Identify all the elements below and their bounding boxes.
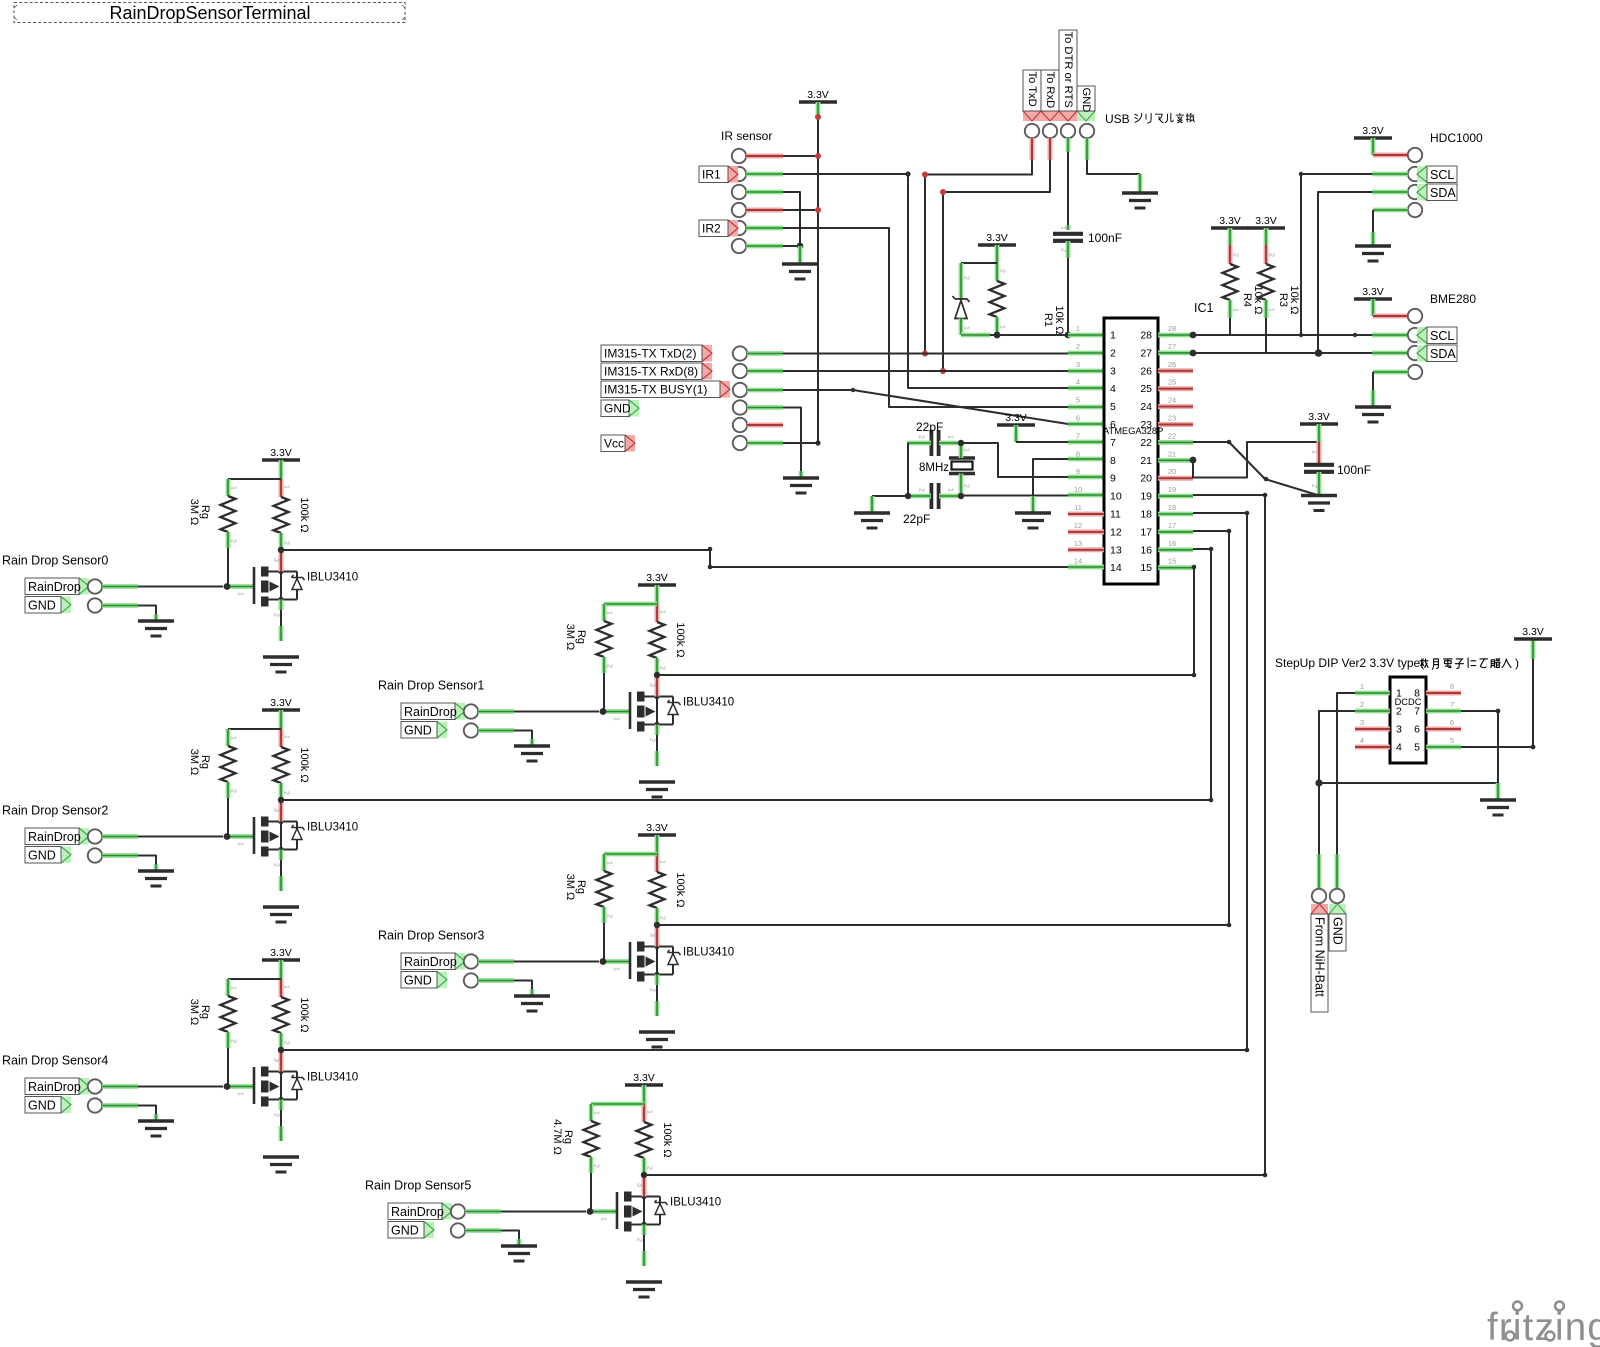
label GND sensor5 [424,1222,434,1239]
resistor 100k sensor5 top leg [642,1104,647,1122]
pin circle battery gnd [1330,889,1344,903]
svg-text:1: 1 [230,986,237,990]
svg-text:3.3V: 3.3V [1308,411,1330,423]
svg-text:1: 1 [593,1111,600,1115]
wire Rg link sensor0 [228,478,281,480]
svg-text:To DTR or RTS: To DTR or RTS [1062,32,1074,108]
svg-text:6: 6 [1450,718,1454,727]
resistor R3 10k [1259,264,1274,300]
svg-text:GND: GND [1331,917,1345,945]
ground sensor1 source [639,780,675,783]
label GND im315 [629,400,639,417]
ground stepup [1480,798,1516,801]
svg-text:2: 2 [593,1164,600,1168]
label GND battery [1329,904,1346,914]
label RainDrop sensor5 [442,1203,452,1220]
power 3.3V sensor2 [262,708,300,712]
wire IR pin3 to gnd [746,190,783,195]
svg-text:22pF: 22pF [916,420,943,434]
label GND sensor3 [437,972,447,989]
power 3.3V sensor4 [262,958,300,962]
wire reset line to pin1 [961,333,990,338]
label GND sensor1 [437,722,447,739]
svg-text:2: 2 [963,484,970,488]
svg-text:IR sensor: IR sensor [721,129,772,143]
svg-text:6: 6 [1076,414,1080,423]
svg-text:3M Ω: 3M Ω [188,999,200,1026]
svg-text:3.3V: 3.3V [807,89,829,101]
svg-text:fritzing: fritzing [1487,1306,1600,1347]
resistor Rg sensor0 3M &#937; [221,496,236,532]
svg-text:1: 1 [963,326,970,330]
IC DCDC body [1390,677,1426,763]
resistor 100k sensor2 top leg [279,729,284,747]
power 3.3V R4 [1211,226,1249,230]
power 3.3V R3 [1247,226,1285,230]
svg-text:Rain Drop Sensor5: Rain Drop Sensor5 [365,1179,471,1193]
pin circle IR header pin 3 [732,185,746,199]
svg-text:7: 7 [1414,706,1420,718]
svg-text:11: 11 [1074,503,1082,512]
ground sensor5 source [626,1280,662,1283]
svg-text:GND: GND [604,402,631,416]
svg-text:R1: R1 [1042,313,1054,327]
wire HDC SDA [1372,190,1408,195]
pin circle IR header pin 1 [732,149,746,163]
node IR gnd [797,243,804,250]
svg-text:3: 3 [273,1058,280,1062]
svg-text:SDA: SDA [1430,186,1456,200]
ground sensor4 source [263,1155,299,1158]
ground pin8 [1015,511,1051,514]
ground sensor5 input [501,1244,537,1247]
svg-text:4: 4 [1076,378,1080,387]
wire 3.3V leg sensor1 [655,585,660,604]
svg-text:IM315-TX RxD(8): IM315-TX RxD(8) [604,365,698,379]
resistor Rg 4.7M &#937; sensor5 [589,1104,594,1121]
red stub pins 26 25 24 23 20 [1158,368,1193,373]
svg-text:21: 21 [1140,455,1152,467]
pin circle battery plus [1312,889,1326,903]
svg-text:4: 4 [1396,742,1402,754]
resistor Rg sensor3 3M &#937; [597,871,612,907]
wire zener link [961,262,997,264]
pin circle BME280 pin 1 [1408,309,1422,323]
label GND sensor4 [61,1097,71,1114]
ground sensor2 source [263,905,299,908]
resistor R4 10k [1223,264,1238,300]
svg-text:IBLU3410: IBLU3410 [683,697,734,709]
wire raindrop input sensor4 [102,1084,138,1089]
node gate sensor5 [587,1208,594,1215]
wire IR2 signal to ATMEGA pin5 [746,226,783,231]
pin circle IR header pin 2 [732,167,746,181]
label From NiH-Batt [1311,904,1328,914]
wire IM315 TxD to ATMEGA pin2 [747,351,783,356]
svg-text:9: 9 [1076,467,1080,476]
svg-text:3.3V: 3.3V [1362,125,1384,137]
svg-text:8: 8 [1076,449,1080,458]
svg-text:1: 1 [283,735,290,739]
svg-text:100k Ω: 100k Ω [298,997,310,1032]
svg-text:3.3V: 3.3V [986,232,1008,244]
wire sensor2 drain to pin16 [281,549,1211,800]
svg-text:12: 12 [1110,526,1122,538]
svg-text:3.3V: 3.3V [646,822,668,834]
ground IR [782,262,818,265]
svg-text:8: 8 [1450,682,1454,691]
pin circle IM315 pin 3 [733,383,747,397]
wire pin22 agnd diagonal [1193,441,1229,443]
svg-text:1: 1 [1060,226,1067,230]
wire gnd input sensor5 [465,1228,501,1233]
svg-text:): ) [1515,656,1519,670]
svg-text:2: 2 [1232,253,1239,257]
wire USB RxD to TXD line [1048,138,1053,160]
pin circle sensor5 raindrop pin [451,1204,465,1218]
resistor Rg sensor5 4.7M &#937; [584,1121,599,1157]
wire sensor4 drain to pin18 [281,513,1247,1050]
svg-text:R4: R4 [1241,293,1253,307]
svg-text:2: 2 [963,276,970,280]
svg-text:28: 28 [1168,324,1176,333]
wire sensor5 drain to pin19 [644,495,1265,1175]
svg-text:8MHz: 8MHz [919,462,949,474]
pin circle HDC1000 pin 1 [1408,148,1422,162]
node battery minus [1315,779,1322,786]
svg-text:100k Ω: 100k Ω [674,872,686,907]
pin circle HDC1000 pin 4 [1408,203,1422,217]
svg-text:27: 27 [1168,342,1176,351]
wire pin21 pin20 to 3.3V [1190,457,1197,464]
wire 3.3V leg sensor2 [279,710,284,729]
wire raindrop input sensor5 [465,1209,501,1214]
resistor Rg 3M &#937; sensor0 [226,479,231,496]
svg-text:1: 1 [947,488,954,492]
svg-text:GND: GND [391,1223,419,1237]
power 3.3V R1 [978,243,1016,247]
label SCL hdc [1417,166,1427,183]
svg-text:2: 2 [606,914,613,918]
resistor Rg sensor2 3M &#937; [221,746,236,782]
svg-text:22pF: 22pF [903,512,930,526]
pin circle BME280 pin 4 [1408,365,1422,379]
svg-text:SCL: SCL [1430,168,1454,182]
svg-text:23: 23 [1140,419,1152,431]
wire 3.3V leg sensor0 [279,460,284,479]
pin circle sensor1 raindrop pin [464,704,478,718]
wire 3.3V leg sensor4 [279,960,284,979]
svg-text:1: 1 [659,610,666,614]
svg-text:RainDrop: RainDrop [391,1205,444,1219]
svg-text:20: 20 [1140,473,1152,485]
pin circle HDC1000 pin 3 [1408,185,1422,199]
pin circle sensor4 gnd pin [88,1098,102,1112]
svg-text:2: 2 [230,539,237,543]
svg-text:5: 5 [1110,401,1116,413]
wire raindrop input sensor2 [102,834,138,839]
pin circle sensor4 raindrop pin [88,1079,102,1093]
power 3.3V HDC1000 [1354,136,1392,140]
wire sensor1 drain to pin15 [657,567,1194,675]
svg-text:Vcc: Vcc [604,437,624,451]
wire SDA net pin27 [1190,350,1197,357]
label IM315-TX TxD(2) [702,345,712,362]
wire HDC vdd red [1373,153,1408,158]
wire USB DTR to reset cap [1066,138,1071,152]
wire raindrop input sensor3 [478,959,514,964]
svg-text:1: 1 [1360,682,1364,691]
red stub pins 11 12 13 [1068,512,1104,517]
svg-text:26: 26 [1140,365,1152,377]
svg-text:1: 1 [1110,330,1116,342]
svg-text:3.3V: 3.3V [1005,412,1027,424]
svg-text:7: 7 [1450,700,1454,709]
svg-text:2: 2 [1311,484,1318,488]
pin circle USB pin 1 [1025,124,1039,138]
svg-text:25: 25 [1140,383,1152,395]
resistor 100k sensor1 top leg [655,604,660,622]
transistor Q4 IBLU3410 [230,1084,254,1089]
svg-text:100nF: 100nF [1337,463,1371,477]
svg-text:GND: GND [1080,88,1092,113]
wire 3.3V leg sensor5 [642,1085,647,1104]
svg-text:7: 7 [1110,437,1116,449]
red stub IM315 pin5 [747,423,783,428]
svg-text:14: 14 [1074,557,1082,566]
svg-text:To RxD: To RxD [1044,72,1056,109]
wire gnd input sensor2 [102,853,138,858]
wire DCDC pin1 to GND pin circle [1355,691,1390,696]
resistor Rg sensor4 3M &#937; [221,996,236,1032]
svg-text:GND: GND [28,848,56,862]
svg-text:To TxD: To TxD [1026,72,1038,107]
label RainDrop sensor3 [455,953,465,970]
pin circle BME280 pin 3 [1408,346,1422,360]
svg-text:Rain Drop Sensor4: Rain Drop Sensor4 [2,1054,108,1068]
svg-text:10k Ω: 10k Ω [1288,285,1300,314]
IC1 ATMEGA328P body [1104,318,1158,584]
svg-text:15: 15 [1168,557,1176,566]
ground BME280 [1355,405,1391,408]
wire IM315 RxD to ATMEGA pin3 [747,369,783,374]
svg-text:IBLU3410: IBLU3410 [307,572,358,584]
svg-text:2: 2 [273,863,280,867]
svg-text:3: 3 [649,933,656,937]
label SDA bme [1417,345,1427,362]
wire IM315 BUSY diagonal to ATMEGA pin6 [747,388,783,393]
label GND usb [1077,111,1095,121]
svg-text:2: 2 [659,916,666,920]
pin circle IR header pin 6 [732,239,746,253]
svg-text:7: 7 [1076,431,1080,440]
svg-text:1: 1 [283,485,290,489]
svg-text:IBLU3410: IBLU3410 [307,1072,358,1084]
label IM315-TX RxD(8) [702,363,712,380]
svg-text:21: 21 [1168,449,1176,458]
svg-text:RainDrop: RainDrop [404,705,457,719]
svg-text:1: 1 [237,1092,244,1096]
svg-text:1: 1 [237,842,244,846]
svg-text:RainDrop: RainDrop [28,830,81,844]
transistor Q0 IBLU3410 [230,584,254,589]
svg-text:22: 22 [1168,431,1176,440]
ground avcc cap [1301,494,1337,497]
wire pin8 to gnd [1068,457,1104,462]
label To TxD [1023,111,1041,121]
label GND sensor2 [61,847,71,864]
svg-text:16: 16 [1140,544,1152,556]
wire IM315 GND [747,405,783,410]
wire crystal top to pin9 [939,441,961,446]
resistor R4 10k [1228,228,1233,245]
wire SCL net pin28 [1190,332,1197,339]
wire sensor0 drain to pin14 [281,550,1068,567]
svg-text:IR1: IR1 [702,168,721,182]
wire HDC gnd [1373,208,1408,213]
resistor R3 10k [1264,228,1269,245]
svg-text:Rain Drop Sensor3: Rain Drop Sensor3 [378,929,484,943]
svg-text:11: 11 [1110,509,1121,521]
svg-text:3: 3 [1360,718,1364,727]
wire BME gnd [1373,370,1408,375]
pin circle sensor3 raindrop pin [464,954,478,968]
svg-text:2: 2 [649,738,656,742]
pin circle sensor5 gnd pin [451,1223,465,1237]
resistor 100k sensor3 100k [650,872,665,908]
svg-text:1: 1 [606,611,613,615]
crystal Y1 8MHz [949,456,975,459]
svg-text:2: 2 [1110,347,1116,359]
pin circle sensor2 raindrop pin [88,829,102,843]
svg-text:3M Ω: 3M Ω [188,749,200,776]
svg-text:3.3V: 3.3V [270,697,292,709]
node cap reset [1065,332,1072,339]
svg-text:3.3V: 3.3V [1255,215,1277,227]
ground USB [1122,191,1158,194]
wire cap to reset node [1066,241,1071,258]
label IR2 [728,220,738,237]
svg-text:Rain Drop Sensor2: Rain Drop Sensor2 [2,804,108,818]
red stub DCDC pins 3 4 [1355,727,1390,732]
svg-text:26: 26 [1168,360,1176,369]
svg-text:IBLU3410: IBLU3410 [670,1197,721,1209]
svg-text:1: 1 [230,486,237,490]
wire DCDC pin7 to gnd [1426,709,1461,714]
svg-text:1: 1 [1268,308,1275,312]
label RainDrop sensor1 [455,703,465,720]
text (katakana) serial conversion [1135,113,1195,123]
svg-text:15: 15 [1140,562,1152,574]
label IM315-TX BUSY(1) [720,381,730,398]
svg-text:17: 17 [1168,521,1176,530]
svg-text:3: 3 [273,558,280,562]
transistor Q2 IBLU3410 [230,834,254,839]
wire cap1 left to cap2 left [907,441,931,446]
svg-text:BME280: BME280 [1430,292,1476,306]
power 3.3V stepup out [1514,637,1552,641]
wire DCDC pin2 to battery input [1355,709,1390,714]
svg-text:2: 2 [283,1041,290,1045]
pin circle USB pin 2 [1043,124,1057,138]
wire raindrop input sensor1 [478,709,514,714]
svg-text:13: 13 [1110,544,1122,556]
resistor Rg 3M &#937; sensor2 [226,729,231,746]
wire USB GND [1085,138,1090,160]
svg-text:3: 3 [1396,724,1402,736]
svg-text:2: 2 [999,269,1006,273]
pin circle IR header pin 4 [732,203,746,217]
svg-text:1: 1 [963,448,970,452]
title frame [14,3,405,23]
label To RxD [1041,111,1059,121]
node gate sensor3 [600,958,607,965]
svg-text:1: 1 [1311,450,1318,454]
power 3.3V sensor1 [638,583,676,587]
wire Rg link sensor1 [604,602,657,607]
power 3.3V IR [799,100,837,104]
wire gnd left of crystal [872,495,908,497]
wire Rg link sensor5 [591,1102,644,1107]
svg-text:2: 2 [273,613,280,617]
svg-text:1: 1 [606,861,613,865]
svg-text:2: 2 [636,1238,643,1242]
transistor Q3 IBLU3410 [606,959,630,964]
svg-text:IM315-TX TxD(2): IM315-TX TxD(2) [604,347,696,361]
svg-text:20: 20 [1168,467,1176,476]
svg-text:USB: USB [1105,112,1130,126]
resistor 100k sensor3 top leg [655,854,660,872]
ground sensor4 input [138,1119,174,1122]
svg-text:100k Ω: 100k Ω [298,747,310,782]
svg-text:17: 17 [1140,526,1152,538]
svg-text:22: 22 [1140,437,1152,449]
svg-text:2: 2 [1060,248,1067,252]
ground sensor2 input [138,869,174,872]
wire crystal bottom to pin10 [939,494,961,499]
wire Rg link sensor4 [228,978,281,980]
wire IR1 signal to ATMEGA pin4 [746,172,783,177]
wire IR pin6 to gnd [746,244,783,249]
svg-text:Rain Drop Sensor0: Rain Drop Sensor0 [2,554,108,568]
svg-text:3.3V: 3.3V [633,1072,655,1084]
svg-text:5: 5 [1450,736,1454,745]
ground HDC1000 [1355,244,1391,247]
svg-text:3.3V: 3.3V [1362,286,1384,298]
svg-text:10: 10 [1074,485,1082,494]
svg-text:16: 16 [1168,539,1176,548]
svg-text:14: 14 [1110,562,1122,574]
ground sensor3 source [639,1030,675,1033]
svg-text:24: 24 [1168,396,1176,405]
svg-text:24: 24 [1140,401,1152,413]
svg-text:1: 1 [613,967,620,971]
node gate sensor0 [224,583,231,590]
wire battery gnd rail [1319,782,1498,784]
svg-text:13: 13 [1074,539,1082,548]
capacitor C1 22pF [930,430,934,456]
wire IR 3.3V rail [816,102,821,117]
svg-text:RainDropSensorTerminal: RainDropSensorTerminal [109,3,310,23]
label RainDrop sensor2 [79,828,89,845]
power 3.3V sensor5 [625,1083,663,1087]
pin circle sensor0 gnd pin [88,598,102,612]
power 3.3V sensor3 [638,833,676,837]
svg-text:1: 1 [659,860,666,864]
resistor Rg sensor1 3M &#937; [597,621,612,657]
label To DTR or RTS [1059,111,1077,121]
svg-text:GND: GND [404,973,432,987]
